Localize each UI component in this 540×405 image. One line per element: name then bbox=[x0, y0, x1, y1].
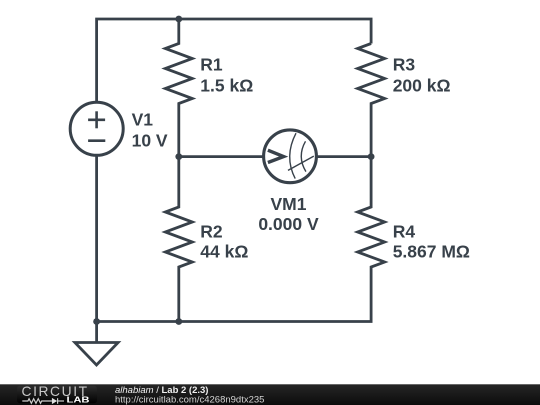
svg-text:44 kΩ: 44 kΩ bbox=[200, 242, 248, 262]
svg-text:R3: R3 bbox=[393, 55, 416, 75]
svg-text:VM1: VM1 bbox=[271, 194, 307, 214]
svg-text:R1: R1 bbox=[200, 55, 223, 75]
svg-text:http://circuitlab.com/c4268n9d: http://circuitlab.com/c4268n9dtx235 bbox=[115, 395, 264, 405]
svg-text:R4: R4 bbox=[393, 221, 416, 241]
svg-text:1.5 kΩ: 1.5 kΩ bbox=[200, 76, 253, 96]
svg-text:R2: R2 bbox=[200, 221, 223, 241]
svg-text:0.000 V: 0.000 V bbox=[258, 214, 319, 234]
svg-text:V1: V1 bbox=[132, 110, 154, 130]
svg-text:LAB: LAB bbox=[67, 396, 90, 405]
svg-text:5.867 MΩ: 5.867 MΩ bbox=[393, 242, 470, 262]
svg-text:200 kΩ: 200 kΩ bbox=[393, 75, 451, 95]
svg-text:10 V: 10 V bbox=[132, 131, 168, 151]
